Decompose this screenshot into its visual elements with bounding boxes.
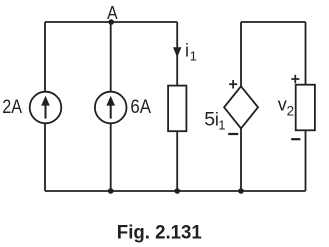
svg-text:1: 1 <box>190 49 197 64</box>
current source I2 (6A) circle <box>95 92 127 124</box>
dependent source U1 diamond (5 i1) <box>224 86 258 128</box>
wire bottom rail <box>45 190 306 192</box>
wire v2 branch upper <box>305 22 307 85</box>
wire top-left horizontal (node A rail) <box>45 21 177 23</box>
wire left branch upper <box>44 22 46 92</box>
wire v2 branch lower <box>305 130 307 191</box>
svg-text:1: 1 <box>218 118 225 133</box>
current source I2 arrow <box>106 96 115 119</box>
resistor R1 body <box>168 86 186 132</box>
voltage source v2 body <box>296 85 315 131</box>
wire top-right horizontal <box>241 21 306 23</box>
svg-text:v: v <box>278 94 287 114</box>
wire diamond branch lower <box>240 128 242 191</box>
dependent source minus sign <box>228 133 238 135</box>
svg-text:i: i <box>185 40 189 60</box>
wire 6A branch upper <box>110 22 112 92</box>
junction dot resistor bottom <box>174 188 180 194</box>
wire left branch lower <box>44 123 46 191</box>
dependent source plus sign <box>229 80 237 89</box>
voltage source v2 plus sign <box>291 75 299 84</box>
voltage source v2 minus sign <box>291 138 300 140</box>
wire 6A branch lower <box>110 123 112 191</box>
current source I1 (2A) circle <box>30 92 62 124</box>
junction dot diamond bottom <box>238 188 244 194</box>
wire diamond branch upper <box>240 22 242 87</box>
junction dot 6A bottom <box>108 188 114 194</box>
svg-text:2: 2 <box>287 104 295 119</box>
svg-text:Fig. 2.131: Fig. 2.131 <box>117 222 202 244</box>
svg-text:6A: 6A <box>130 96 151 118</box>
wire resistor branch lower <box>176 131 178 191</box>
node A junction dot <box>108 19 114 25</box>
svg-text:5: 5 <box>204 109 215 131</box>
svg-text:A: A <box>107 3 118 23</box>
svg-text:2A: 2A <box>2 96 22 118</box>
wire resistor branch upper <box>176 22 178 86</box>
current source I1 arrow <box>41 96 50 119</box>
current arrow i1 head on resistor branch <box>173 47 181 57</box>
